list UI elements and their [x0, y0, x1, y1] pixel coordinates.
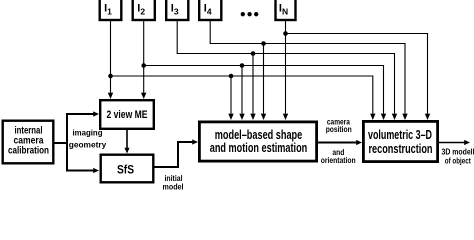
box I2: [133, 0, 155, 20]
wire I2 horizontal to volumetric: [144, 66, 387, 121]
wire IN vertical to model-based: [283, 20, 288, 120]
svg-text:calibration: calibration: [8, 146, 49, 157]
ellipsis dots: [241, 12, 259, 16]
wire branch to SfS: [66, 168, 99, 173]
svg-text:volumetric 3–D: volumetric 3–D: [368, 128, 432, 142]
box internal camera calibration: [3, 121, 54, 164]
label initial model: [163, 173, 184, 192]
svg-text:position: position: [326, 124, 352, 134]
wire I3 to volumetric: [177, 20, 397, 120]
wire 2 view ME to SfS: [124, 130, 129, 154]
svg-text:model–based shape: model–based shape: [215, 128, 303, 142]
svg-text:geometry: geometry: [69, 140, 107, 150]
label camera position: [326, 116, 352, 134]
box 2 view ME: [100, 100, 154, 129]
wire calibration stub: [55, 142, 68, 144]
wire imaging-geometry branch vertical: [66, 114, 68, 171]
junction I2 drop: [240, 63, 245, 68]
label 3D modell of object: [442, 147, 474, 166]
junction I1: [108, 74, 113, 79]
wire I4 drop to model-based: [261, 44, 266, 121]
label imaging geometry: [69, 128, 107, 150]
svg-text:camera: camera: [14, 135, 44, 146]
wire I1 vertical to 2 view ME: [108, 20, 113, 99]
wire I2 drop to model-based: [239, 66, 244, 121]
wire I3 drop to model-based: [250, 54, 255, 121]
box SfS: [101, 155, 154, 183]
box I3: [166, 0, 188, 20]
wire IN horizontal to volumetric: [286, 34, 431, 121]
junction I4 drop: [261, 41, 266, 46]
junction IN: [283, 31, 288, 36]
svg-text:reconstruction: reconstruction: [369, 142, 433, 156]
wire model-based to volumetric: [318, 140, 362, 145]
wire I2 vertical to 2 view ME: [141, 20, 146, 99]
svg-text:2 view ME: 2 view ME: [107, 109, 148, 121]
box I4: [199, 0, 221, 20]
svg-text:of object: of object: [445, 156, 471, 166]
junction I3 drop: [251, 51, 256, 56]
junction I2: [141, 63, 146, 68]
wire I1 drop to model-based: [228, 76, 233, 120]
wire I4 to volumetric: [210, 20, 408, 120]
box I1: [100, 0, 122, 20]
svg-text:model: model: [163, 181, 184, 190]
box volumetric 3-D reconstruction: [363, 121, 437, 161]
svg-text:orientation: orientation: [321, 155, 356, 165]
box IN: [276, 0, 296, 20]
wire volumetric to output: [439, 140, 470, 145]
wire I1 horizontal to volumetric: [111, 76, 376, 120]
svg-text:SfS: SfS: [117, 163, 134, 177]
wire SfS to model-based: [155, 139, 199, 167]
junction I1 drop: [229, 74, 234, 79]
box model-based shape and motion estimation: [199, 122, 316, 161]
svg-text:imaging: imaging: [73, 128, 103, 138]
label and orientation: [321, 147, 356, 165]
svg-text:and motion estimation: and motion estimation: [210, 141, 308, 155]
wire branch to 2 view ME: [66, 111, 99, 116]
